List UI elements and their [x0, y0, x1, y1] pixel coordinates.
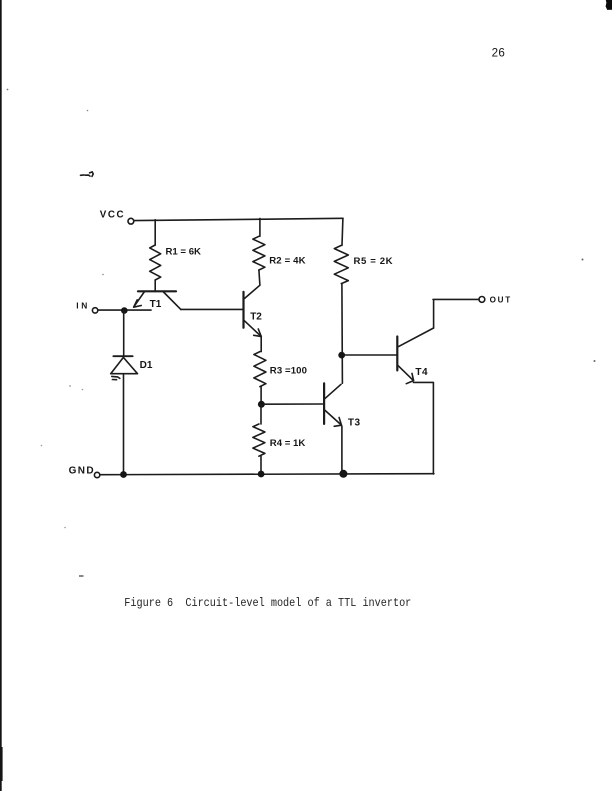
label T3 [348, 418, 361, 429]
net label IN [76, 300, 90, 310]
label R4 = 1K [270, 438, 306, 449]
junction node R5/T3/T4 [338, 352, 345, 359]
transistor T4 [397, 328, 433, 384]
svg-text:R2 = 4K: R2 = 4K [269, 256, 306, 267]
wire VCC to R1 [154, 220, 156, 245]
wire node to T3 base [264, 403, 323, 405]
wire node to T4 base [345, 354, 397, 356]
wire R4 to GND [260, 456, 262, 474]
wire T1 collector to T2 base [181, 308, 243, 310]
svg-text:26: 26 [492, 46, 506, 59]
terminal GND [94, 472, 99, 477]
wire T4 emitter to GND [413, 382, 433, 474]
svg-text:R1 = 6K: R1 = 6K [166, 246, 202, 257]
wire R1 to T1 base [154, 280, 156, 291]
transistor T2 [244, 292, 262, 337]
label R2 = 4K [269, 256, 306, 267]
svg-text:Figure 6 Circuit-level model: Figure 6 Circuit-level model of a TTL in… [124, 596, 411, 610]
label T2 [250, 312, 262, 323]
wire IN node to D1 cathode [123, 311, 125, 356]
terminal OUT [479, 297, 485, 303]
wire VCC to R2 [259, 218, 261, 236]
page number 26 [492, 46, 506, 59]
net label OUT [490, 296, 512, 305]
junction node R3/R4/T3 [258, 401, 265, 408]
resistor R5 [334, 245, 348, 283]
terminal IN [92, 308, 97, 313]
svg-text:GND: GND [69, 465, 95, 476]
net label VCC [100, 209, 125, 220]
wire IN to T1 emitter [98, 309, 151, 311]
label T4 [415, 367, 428, 378]
svg-text:OUT: OUT [490, 296, 512, 305]
diode D1 [111, 356, 138, 380]
terminal VCC [128, 218, 134, 224]
label T1 [150, 299, 162, 310]
wire GND rail [100, 474, 434, 475]
caption Figure 6 [124, 596, 411, 610]
wire VCC rail [134, 218, 343, 220]
wire D1 anode to GND [123, 374, 125, 474]
stray pen mark top-left [81, 172, 94, 177]
svg-text:D1: D1 [140, 360, 153, 371]
wire VCC to R5 [341, 218, 344, 245]
resistor R4 [253, 404, 265, 456]
wire R2 to T2 collector [245, 270, 260, 298]
junction D1/GND [120, 471, 127, 478]
transistor T1 [134, 291, 181, 309]
label D1 [140, 360, 153, 371]
svg-text:T4: T4 [415, 367, 428, 378]
wire T2 emitter to R3 [260, 336, 262, 351]
svg-text:IN: IN [76, 300, 90, 310]
transistor T3 [324, 383, 341, 426]
wire T4 collector to OUT [433, 299, 479, 328]
svg-text:VCC: VCC [100, 209, 125, 220]
svg-text:R3 =100: R3 =100 [270, 366, 307, 377]
junction IN node [121, 307, 128, 314]
label R3 =100 [270, 366, 307, 377]
wire R5 to T3 collector [341, 284, 344, 384]
junction R4/GND [258, 471, 265, 478]
svg-text:R4 = 1K: R4 = 1K [270, 438, 306, 449]
resistor R3 [254, 352, 266, 387]
resistor R1 [150, 245, 161, 280]
wire T3 emitter to GND [341, 426, 343, 474]
svg-text:T1: T1 [150, 299, 162, 310]
resistor R2 [253, 236, 265, 270]
label R1 = 6K [166, 246, 202, 257]
svg-text:T2: T2 [250, 312, 262, 323]
net label GND [69, 465, 95, 476]
label R5 = 2K [354, 256, 394, 267]
wire R3 to node [260, 387, 262, 404]
svg-text:R5 = 2K: R5 = 2K [354, 256, 394, 267]
svg-text:T3: T3 [348, 418, 361, 429]
junction T3 emitter/GND [339, 470, 347, 478]
